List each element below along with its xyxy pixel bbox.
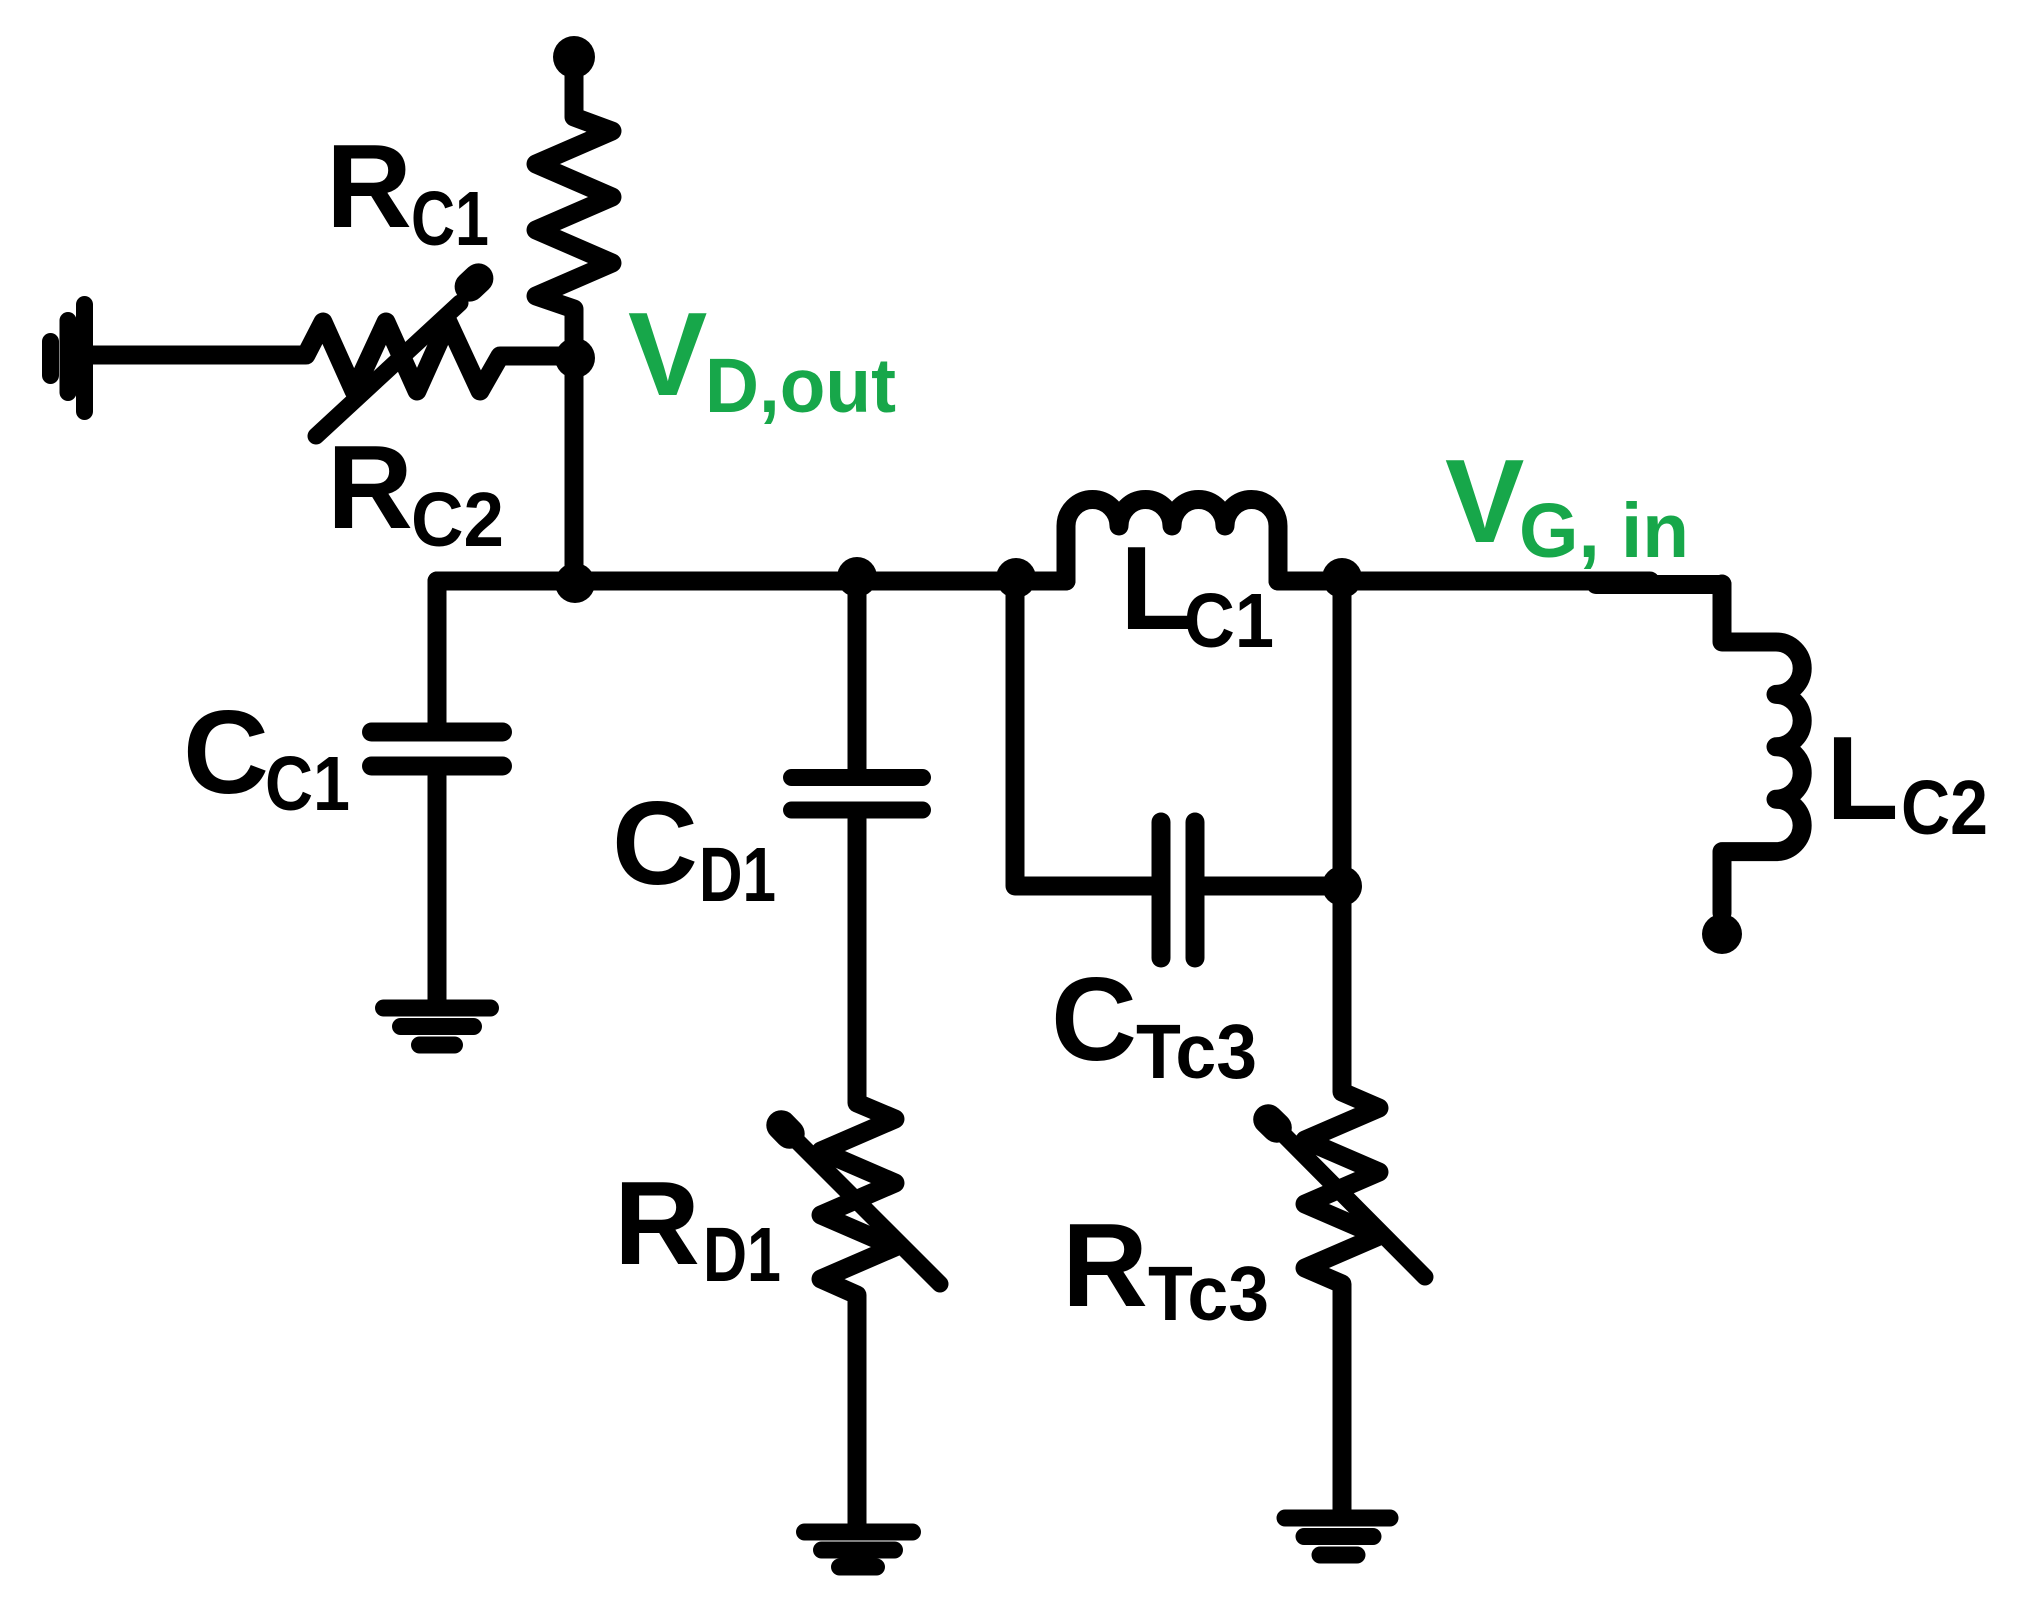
svg-text:G, in: G, in bbox=[1519, 488, 1689, 574]
svg-text:D1: D1 bbox=[699, 832, 776, 918]
svg-text:L: L bbox=[1826, 712, 1899, 845]
svg-text:Tc3: Tc3 bbox=[1136, 1009, 1257, 1095]
svg-text:D1: D1 bbox=[703, 1212, 781, 1298]
svg-text:Tc3: Tc3 bbox=[1148, 1251, 1269, 1337]
svg-text:R: R bbox=[326, 120, 412, 253]
svg-text:C1: C1 bbox=[1184, 578, 1274, 664]
svg-text:R: R bbox=[327, 421, 413, 554]
svg-text:C: C bbox=[1051, 953, 1137, 1086]
svg-text:C1: C1 bbox=[411, 176, 489, 262]
svg-text:C: C bbox=[612, 777, 698, 910]
svg-text:C: C bbox=[183, 686, 269, 819]
svg-text:R: R bbox=[1062, 1199, 1148, 1332]
svg-text:R: R bbox=[614, 1157, 700, 1290]
svg-text:D,out: D,out bbox=[705, 343, 896, 429]
svg-text:L: L bbox=[1120, 522, 1193, 655]
svg-text:V: V bbox=[628, 288, 707, 421]
svg-text:V: V bbox=[1445, 435, 1524, 568]
svg-text:C1: C1 bbox=[265, 741, 350, 827]
svg-text:C2: C2 bbox=[1901, 765, 1988, 851]
svg-text:C2: C2 bbox=[411, 477, 504, 563]
